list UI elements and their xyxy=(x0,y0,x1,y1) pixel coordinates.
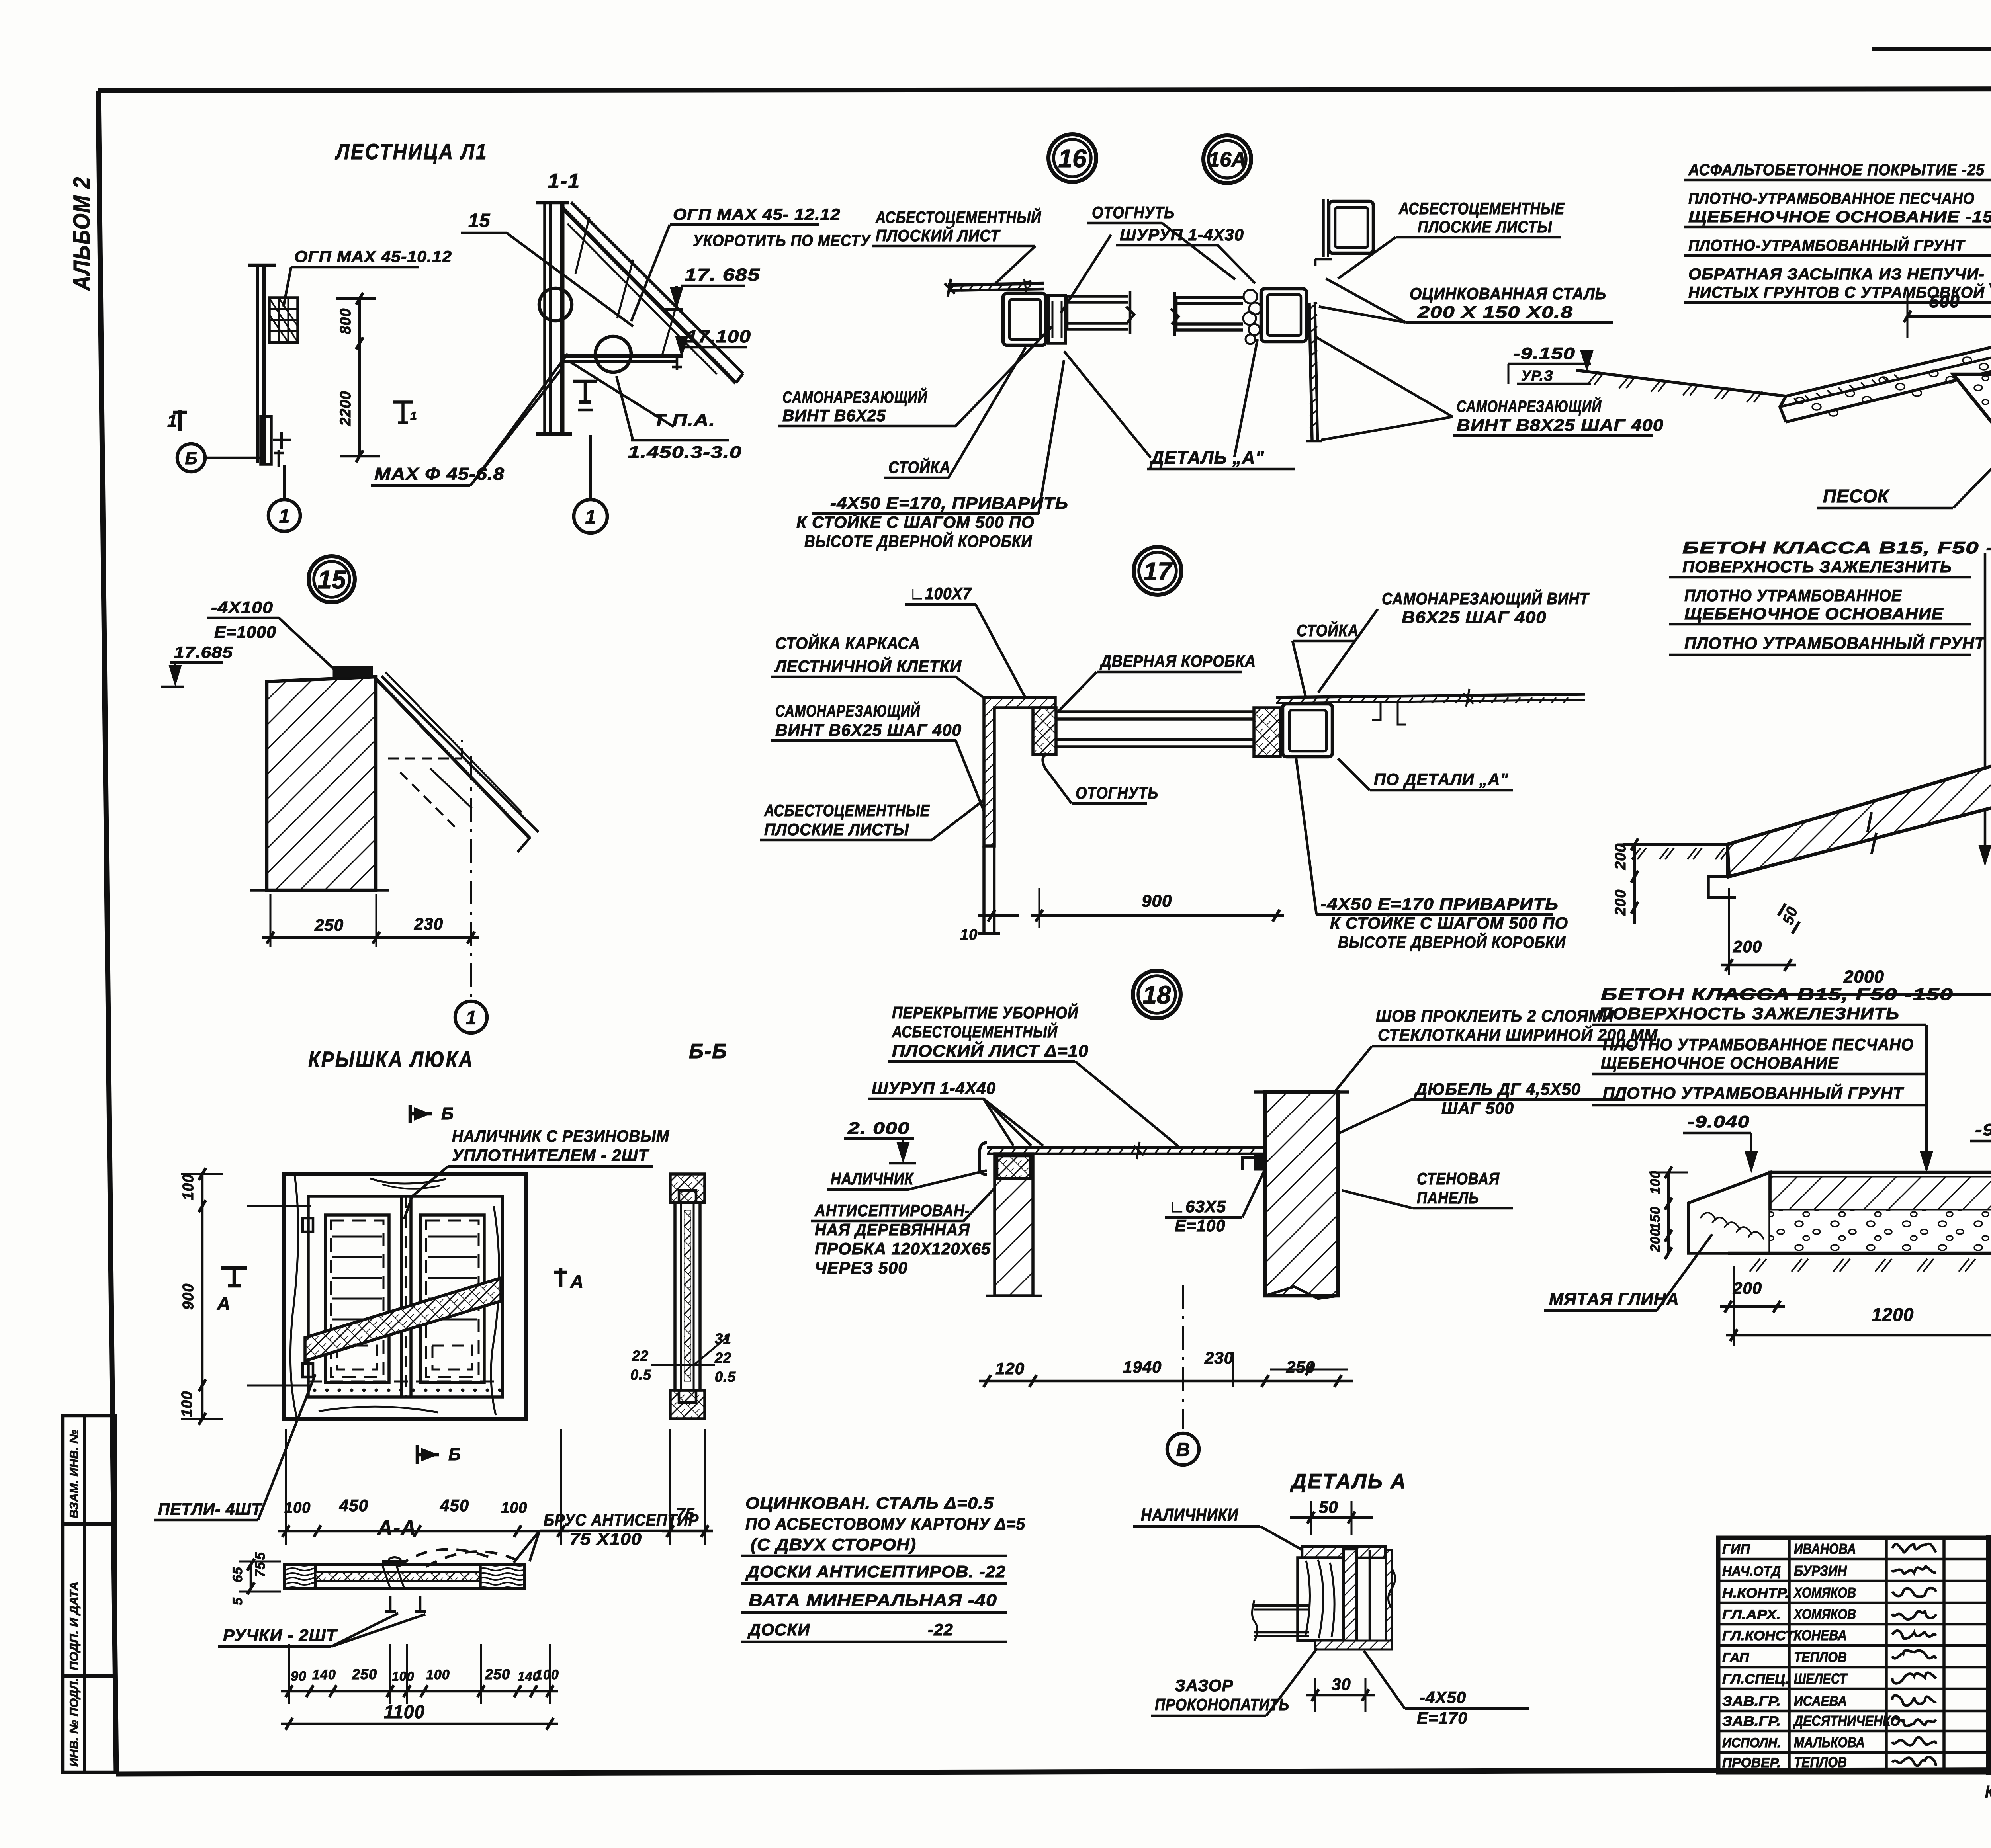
svg-text:По детали „А": По детали „А" xyxy=(1374,770,1508,789)
svg-text:16: 16 xyxy=(1058,144,1087,173)
svg-text:(с двух сторон): (с двух сторон) xyxy=(751,1535,916,1554)
svg-text:Наличники: Наличники xyxy=(1141,1505,1238,1525)
svg-text:18: 18 xyxy=(1142,981,1171,1009)
svg-text:100: 100 xyxy=(392,1669,414,1684)
svg-text:Взам. инв. №: Взам. инв. № xyxy=(68,1430,81,1518)
svg-text:плоский лист δ=10: плоский лист δ=10 xyxy=(892,1041,1089,1060)
svg-text:Б: Б xyxy=(448,1445,461,1464)
svg-text:А-А: А-А xyxy=(377,1516,417,1539)
svg-text:Ручки - 2шт: Ручки - 2шт xyxy=(223,1626,338,1645)
svg-text:∟100x7: ∟100x7 xyxy=(909,584,972,603)
svg-text:5: 5 xyxy=(230,1597,245,1605)
svg-text:Плотно утрамбованный грунт: Плотно утрамбованный грунт xyxy=(1603,1083,1904,1102)
svg-text:плоские листы: плоские листы xyxy=(764,820,909,839)
svg-text:17: 17 xyxy=(1143,557,1173,586)
svg-text:Оцинкованная сталь: Оцинкованная сталь xyxy=(1410,284,1606,303)
svg-text:1: 1 xyxy=(466,1007,477,1028)
svg-text:Дюбель ДГ 4,5х50: Дюбель ДГ 4,5х50 xyxy=(1414,1080,1581,1098)
svg-text:500: 500 xyxy=(1929,292,1960,311)
svg-text:ная деревянная: ная деревянная xyxy=(815,1220,970,1239)
svg-text:винт В6х25 шаг 400: винт В6х25 шаг 400 xyxy=(775,721,962,739)
svg-text:НАЧ.ОТД: НАЧ.ОТД xyxy=(1722,1564,1781,1579)
svg-text:Асбестоцементные: Асбестоцементные xyxy=(1398,199,1565,218)
svg-text:высоте дверной коробки: высоте дверной коробки xyxy=(1338,932,1566,951)
svg-text:200: 200 xyxy=(1612,844,1629,870)
svg-text:100: 100 xyxy=(180,1174,197,1200)
svg-text:2200: 2200 xyxy=(337,391,354,426)
svg-text:100: 100 xyxy=(501,1500,527,1516)
svg-text:Шелест: Шелест xyxy=(1794,1670,1848,1687)
svg-text:Альбом 2: Альбом 2 xyxy=(69,176,95,291)
svg-text:Инв. № подл.: Инв. № подл. xyxy=(68,1678,81,1767)
svg-text:17. 685: 17. 685 xyxy=(685,265,760,285)
svg-text:22: 22 xyxy=(714,1350,731,1366)
svg-text:ГЛ.КОНСТ.: ГЛ.КОНСТ. xyxy=(1722,1628,1797,1643)
svg-text:15: 15 xyxy=(317,565,346,594)
svg-text:30: 30 xyxy=(1332,1675,1351,1694)
svg-text:Зазор: Зазор xyxy=(1175,1676,1233,1695)
svg-text:1200: 1200 xyxy=(1872,1304,1914,1325)
svg-text:22: 22 xyxy=(632,1348,649,1364)
svg-text:Антисептирован-: Антисептирован- xyxy=(814,1201,970,1220)
svg-text:Крышка люка: Крышка люка xyxy=(308,1047,474,1072)
svg-text:асбестоцементный: асбестоцементный xyxy=(892,1022,1058,1041)
svg-text:Асфальтобетонное покрытие -25: Асфальтобетонное покрытие -25 xyxy=(1688,161,1985,179)
svg-text:Подп. и дата: Подп. и дата xyxy=(68,1582,81,1670)
svg-text:450: 450 xyxy=(440,1496,469,1515)
svg-text:лестничной клетки: лестничной клетки xyxy=(774,656,962,676)
svg-text:Песок: Песок xyxy=(1823,486,1890,506)
svg-text:Деталь А: Деталь А xyxy=(1290,1470,1407,1493)
svg-text:250: 250 xyxy=(352,1666,377,1682)
svg-text:120: 120 xyxy=(995,1359,1025,1378)
svg-text:200: 200 xyxy=(1648,1228,1663,1252)
svg-text:поверхность зажелезнить: поверхность зажелезнить xyxy=(1599,1004,1899,1023)
svg-text:Оцинкован. сталь δ=0.5: Оцинкован. сталь δ=0.5 xyxy=(745,1494,994,1512)
svg-text:100: 100 xyxy=(179,1391,196,1417)
svg-text:е=170: е=170 xyxy=(1417,1709,1468,1727)
svg-text:900: 900 xyxy=(1142,891,1172,911)
svg-text:50: 50 xyxy=(1319,1498,1338,1516)
svg-text:винт В8х25 шаг 400: винт В8х25 шаг 400 xyxy=(1457,416,1664,434)
svg-text:250: 250 xyxy=(485,1666,510,1682)
svg-text:1: 1 xyxy=(585,506,596,527)
svg-text:Асбестоцементный: Асбестоцементный xyxy=(875,207,1041,227)
svg-text:-4x50 е=170 приварить: -4x50 е=170 приварить xyxy=(1320,895,1559,913)
svg-text:100: 100 xyxy=(426,1667,450,1682)
svg-text:Н.КОНТР.: Н.КОНТР. xyxy=(1722,1586,1789,1601)
svg-text:Отогнуть: Отогнуть xyxy=(1092,203,1175,222)
svg-text:В: В xyxy=(1176,1439,1190,1460)
svg-text:-9.040: -9.040 xyxy=(1688,1112,1750,1131)
svg-text:Брус антисептир: Брус антисептир xyxy=(544,1510,699,1529)
svg-text:-22: -22 xyxy=(928,1620,953,1639)
svg-text:ПРОВЕР.: ПРОВЕР. xyxy=(1722,1755,1781,1770)
svg-text:А: А xyxy=(217,1293,231,1314)
svg-text:Асбестоцементные: Асбестоцементные xyxy=(764,801,930,820)
svg-text:-4x100: -4x100 xyxy=(211,598,273,617)
svg-text:Самонарезающий винт: Самонарезающий винт xyxy=(1382,588,1590,608)
svg-text:Деталь „А": Деталь „А" xyxy=(1149,447,1264,468)
svg-text:0.5: 0.5 xyxy=(715,1369,736,1385)
svg-text:по асбестовому картону δ=5: по асбестовому картону δ=5 xyxy=(745,1514,1025,1533)
svg-text:Стойка: Стойка xyxy=(888,457,951,477)
svg-text:2000: 2000 xyxy=(1843,967,1884,987)
svg-text:Наличник с резиновым: Наличник с резиновым xyxy=(452,1127,669,1145)
svg-text:к стойке с шагом 500 по: к стойке с шагом 500 по xyxy=(1330,913,1568,932)
svg-text:ГИП: ГИП xyxy=(1722,1542,1750,1557)
svg-text:-9.150: -9.150 xyxy=(1513,344,1575,363)
svg-text:через 500: через 500 xyxy=(815,1258,908,1277)
svg-text:Бетон класса В15, F50: Бетон класса В15, F50 -150 xyxy=(1682,538,1991,557)
svg-text:Хомяков: Хомяков xyxy=(1793,1584,1856,1601)
svg-text:10: 10 xyxy=(960,926,978,943)
svg-text:200 х 150 х0.8: 200 х 150 х0.8 xyxy=(1417,303,1573,321)
svg-text:к стойке с шагом 500 по: к стойке с шагом 500 по xyxy=(796,512,1035,531)
svg-text:ГЛ.АРХ.: ГЛ.АРХ. xyxy=(1722,1607,1781,1622)
svg-text:Иванова: Иванова xyxy=(1794,1541,1856,1557)
svg-text:огп МАХ 45- 12.12: огп МАХ 45- 12.12 xyxy=(673,206,841,223)
svg-text:230: 230 xyxy=(1204,1348,1234,1367)
svg-text:Теплов: Теплов xyxy=(1794,1754,1847,1770)
svg-text:-4x50 е=170, приварить: -4x50 е=170, приварить xyxy=(830,494,1068,512)
svg-text:100: 100 xyxy=(1648,1170,1663,1194)
svg-text:65: 65 xyxy=(230,1567,245,1582)
svg-text:-9.020: -9.020 xyxy=(1975,1120,1991,1139)
svg-text:ЗАВ.ГР.: ЗАВ.ГР. xyxy=(1722,1694,1781,1709)
svg-text:укоротить по месту: укоротить по месту xyxy=(693,232,871,250)
svg-text:винт В6х25: винт В6х25 xyxy=(782,406,886,425)
svg-text:Стойка: Стойка xyxy=(1297,620,1359,640)
svg-text:плоский лист: плоский лист xyxy=(876,225,1001,245)
svg-text:Плотно-утрамбованное песчано: Плотно-утрамбованное песчано xyxy=(1688,190,1975,207)
svg-text:Самонарезающий: Самонарезающий xyxy=(1457,396,1602,416)
svg-text:УР.З: УР.З xyxy=(1521,367,1553,384)
svg-text:Б: Б xyxy=(441,1104,454,1123)
svg-text:Б-Б: Б-Б xyxy=(689,1040,728,1063)
svg-text:Отогнуть: Отогнуть xyxy=(1076,783,1158,802)
svg-text:17.100: 17.100 xyxy=(686,327,751,346)
svg-text:0.5: 0.5 xyxy=(630,1367,651,1383)
svg-text:высоте дверной коробки: высоте дверной коробки xyxy=(804,531,1032,551)
svg-text:1.450.3-3.0: 1.450.3-3.0 xyxy=(628,443,742,461)
svg-text:Шов проклеить 2 слоями: Шов проклеить 2 слоями xyxy=(1376,1006,1614,1025)
svg-text:Наличник: Наличник xyxy=(831,1169,914,1188)
svg-text:100: 100 xyxy=(284,1500,311,1516)
svg-text:Самонарезающий: Самонарезающий xyxy=(782,387,927,406)
svg-text:250: 250 xyxy=(314,916,344,934)
svg-text:Плотно утрамбованное: Плотно утрамбованное xyxy=(1684,586,1902,605)
svg-text:∟63х5: ∟63х5 xyxy=(1169,1197,1226,1216)
svg-text:е=100: е=100 xyxy=(1175,1216,1226,1235)
svg-text:75 х100: 75 х100 xyxy=(569,1530,642,1548)
svg-text:90: 90 xyxy=(291,1669,307,1684)
svg-text:Плотно-утрамбованный грунт: Плотно-утрамбованный грунт xyxy=(1688,236,1966,254)
svg-text:17.685: 17.685 xyxy=(174,644,233,661)
svg-text:100: 100 xyxy=(535,1667,559,1682)
svg-text:Плотно утрамбованный грунт: Плотно утрамбованный грунт xyxy=(1684,633,1986,652)
svg-text:Стойка каркаса: Стойка каркаса xyxy=(775,633,920,652)
svg-text:Теплов: Теплов xyxy=(1794,1649,1847,1665)
svg-text:900: 900 xyxy=(180,1283,197,1310)
svg-text:ГАП: ГАП xyxy=(1722,1650,1750,1665)
svg-text:А: А xyxy=(570,1271,584,1292)
svg-text:щебеночное основание -1: щебеночное основание -150 xyxy=(1688,208,1991,226)
svg-text:1: 1 xyxy=(410,410,417,423)
svg-text:Т п.А.: Т п.А. xyxy=(653,411,715,430)
svg-text:800: 800 xyxy=(337,308,354,334)
svg-text:Копировал: Копировал xyxy=(1985,1782,1991,1802)
svg-text:450: 450 xyxy=(339,1496,368,1515)
svg-text:1-1: 1-1 xyxy=(548,170,580,193)
svg-text:75: 75 xyxy=(253,1561,268,1577)
svg-text:Самонарезающий: Самонарезающий xyxy=(775,701,920,720)
svg-text:16а: 16а xyxy=(1208,148,1246,172)
svg-text:5: 5 xyxy=(253,1552,268,1560)
svg-text:Бурзин: Бурзин xyxy=(1794,1563,1847,1579)
svg-text:Бетон класса В15, F50: Бетон класса В15, F50 -150 xyxy=(1601,985,1953,1004)
svg-text:15: 15 xyxy=(468,210,491,231)
svg-text:Доски: Доски xyxy=(747,1620,810,1639)
svg-text:пробка 120х120х65: пробка 120х120х65 xyxy=(815,1239,991,1258)
svg-text:1100: 1100 xyxy=(384,1701,425,1722)
svg-text:Дверная коробка: Дверная коробка xyxy=(1099,652,1256,670)
svg-text:ГЛ.СПЕЦ.: ГЛ.СПЕЦ. xyxy=(1722,1672,1789,1687)
svg-text:Конева: Конева xyxy=(1794,1627,1847,1643)
svg-text:150: 150 xyxy=(1648,1206,1663,1230)
svg-text:1: 1 xyxy=(279,506,290,527)
svg-text:щебеночное основание: щебеночное основание xyxy=(1684,604,1944,623)
svg-text:Петли- 4шт: Петли- 4шт xyxy=(158,1500,262,1518)
svg-text:поверхность зажелезнить: поверхность зажелезнить xyxy=(1682,557,1952,576)
svg-text:Малькова: Малькова xyxy=(1794,1734,1865,1750)
svg-text:е=1000: е=1000 xyxy=(214,623,276,641)
svg-text:огп МАХ 45-10.12: огп МАХ 45-10.12 xyxy=(294,248,452,266)
svg-text:-4х50: -4х50 xyxy=(1420,1688,1466,1707)
svg-text:140: 140 xyxy=(312,1667,336,1682)
svg-text:Шуруп 1-4x40: Шуруп 1-4x40 xyxy=(872,1079,996,1098)
svg-text:плоские листы: плоские листы xyxy=(1418,217,1552,236)
svg-text:2. 000: 2. 000 xyxy=(847,1119,910,1137)
svg-text:1: 1 xyxy=(167,411,177,431)
svg-text:Доски антисептиров. -22: Доски антисептиров. -22 xyxy=(745,1562,1006,1581)
svg-text:ЗАВ.ГР.: ЗАВ.ГР. xyxy=(1722,1714,1781,1729)
svg-text:Б: Б xyxy=(185,449,197,468)
svg-text:Вата минеральная -40: Вата минеральная -40 xyxy=(749,1591,997,1610)
svg-text:ИСПОЛН.: ИСПОЛН. xyxy=(1722,1735,1781,1750)
svg-text:200: 200 xyxy=(1612,889,1629,916)
svg-text:200: 200 xyxy=(1733,1279,1762,1297)
svg-text:Лестница Л1: Лестница Л1 xyxy=(335,139,488,164)
svg-text:шаг 500: шаг 500 xyxy=(1441,1099,1514,1117)
svg-text:Плотно утрамбованное песчано: Плотно утрамбованное песчано xyxy=(1603,1035,1914,1054)
svg-text:Исаева: Исаева xyxy=(1794,1693,1847,1709)
svg-text:уплотнителем - 2шт: уплотнителем - 2шт xyxy=(452,1146,649,1164)
svg-text:шуруп 1-4x30: шуруп 1-4x30 xyxy=(1120,225,1244,244)
svg-text:Обратная засыпка из непучи-: Обратная засыпка из непучи- xyxy=(1688,266,1985,283)
svg-text:Десятниченко: Десятниченко xyxy=(1793,1713,1900,1729)
svg-text:панель: панель xyxy=(1417,1188,1479,1207)
svg-text:Стеновая: Стеновая xyxy=(1417,1169,1500,1188)
svg-text:Перекрытие уборной: Перекрытие уборной xyxy=(892,1002,1078,1022)
svg-text:щебеночное основание: щебеночное основание xyxy=(1601,1053,1839,1072)
svg-text:230: 230 xyxy=(414,914,443,933)
svg-text:1940: 1940 xyxy=(1123,1358,1162,1376)
svg-text:В6х25 шаг 400: В6х25 шаг 400 xyxy=(1402,608,1547,627)
svg-text:200: 200 xyxy=(1733,937,1762,956)
svg-text:Хомяков: Хомяков xyxy=(1793,1606,1856,1622)
